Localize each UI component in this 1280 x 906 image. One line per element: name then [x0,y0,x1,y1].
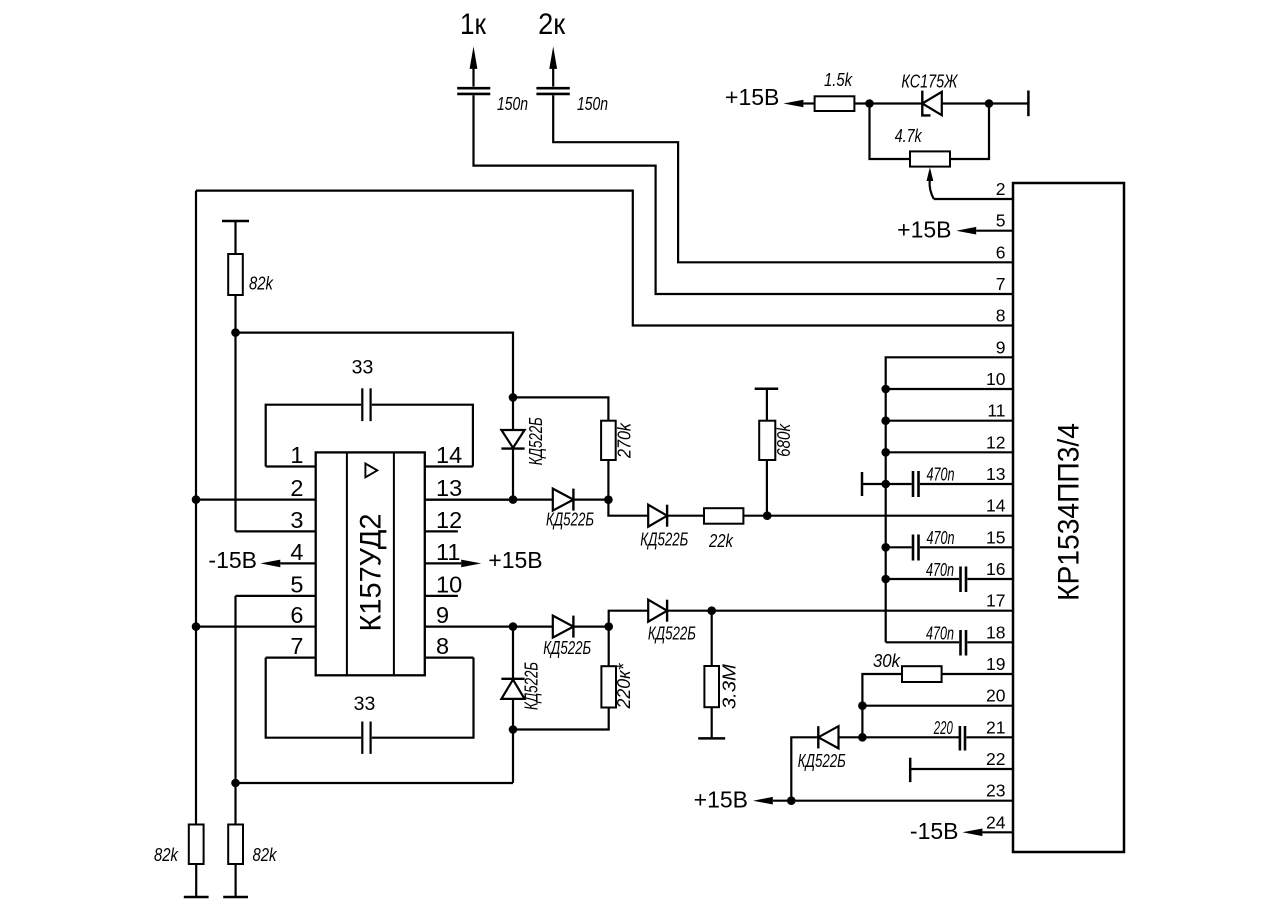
wire U1 pin6 [196,625,316,627]
arrowhead pin24 [962,829,982,837]
svg-text:+15В: +15В [897,217,951,243]
junction dot opamp pin13 node [509,495,518,504]
diode КД522Б D4 (points right) [513,625,609,627]
junction dot pin21 [858,733,867,742]
capacitor 33 (top) plates [361,388,363,421]
feedback loop bottom with cap [266,658,361,738]
svg-text:КД522Б: КД522Б [543,638,591,658]
op-amp U2 КР1534ПП3/4 box [1013,183,1124,852]
svg-text:КД522Б: КД522Б [546,509,594,529]
feedback loop top with cap [266,405,361,467]
wire pin18 left [886,641,959,643]
arrow up to 2к [549,46,557,69]
resistor 3.3М [704,666,719,707]
op-amp U1 triangle symbol [365,464,377,478]
resistor 82k (bottom right) [228,825,243,865]
svg-text:1.5k: 1.5k [824,70,853,90]
wire U1 pin11 [425,562,461,564]
junction dot A [865,99,874,108]
wire R1.5k to terminal [854,102,1028,104]
wire U1 pin8 [425,656,474,658]
svg-text:11: 11 [436,539,460,565]
wire pin15 left [886,546,912,548]
svg-text:270k: 270k [614,422,634,459]
arrowhead pin5 [956,227,976,235]
wire pin19 left + drop [862,674,902,737]
potentiometer 4.7k body [910,151,950,166]
diode КД522Б D5 (points right) [648,610,712,612]
svg-text:КД522Б: КД522Б [521,662,541,710]
wire C1 to pin7 net [474,95,1014,294]
junction dot pin17 node [707,606,716,615]
svg-text:30k: 30k [873,651,901,671]
zener diode КС175Ж [922,92,942,115]
potentiometer wiper arrow [930,180,934,199]
svg-text:2: 2 [996,179,1006,199]
wire U1 pin14 [425,465,473,467]
svg-text:7: 7 [290,633,303,659]
wire pin12 [886,451,1013,453]
junction dot pin14/680k [763,511,772,520]
wire pin10 [886,388,1013,390]
svg-text:КД522Б: КД522Б [526,417,546,465]
junction dot U1 pin6 [192,622,201,631]
terminal bar pin22 [909,758,912,782]
wire pin14 from 22k [743,515,1013,517]
capacitor 470n (pin15) plates [912,535,915,561]
wire pin9 and bus [886,357,1013,642]
wire pin22 [910,768,1013,770]
svg-text:14: 14 [436,442,462,468]
svg-text:4.7k: 4.7k [895,126,923,146]
capacitor C1 150n plates [457,87,490,90]
resistor 82k (top) [228,254,243,295]
wire pin16 right [967,578,1013,580]
svg-text:-15В: -15В [910,818,959,844]
svg-text:3.3М: 3.3М [720,664,740,709]
wire pin13 right [920,483,1013,485]
wire 3.3M to ground [711,707,713,738]
svg-text:33: 33 [354,693,376,715]
svg-text:14: 14 [986,496,1006,516]
capacitor 220 (pin21) plates [959,726,962,751]
terminal bar pin13 [861,472,864,496]
svg-text:5: 5 [290,571,303,597]
wire to 270k top [513,397,608,420]
svg-text:КД522Б: КД522Б [648,624,696,644]
svg-text:10: 10 [986,369,1006,389]
svg-text:6: 6 [996,242,1006,262]
svg-text:22k: 22k [708,531,734,551]
wire pin17 from 3.3M [712,610,1013,612]
wire left net to pin8 [196,191,1013,326]
junction dot pin11 [881,416,890,425]
svg-text:КД522Б: КД522Б [640,530,688,550]
svg-text:22: 22 [986,749,1005,769]
wire pin19 right [942,673,1013,675]
svg-text:+15В: +15В [725,84,779,110]
svg-text:82k: 82k [249,273,274,293]
junction dot D1 top [509,393,518,402]
junction dot pin10 [881,385,890,394]
junction dot pin12 [881,448,890,457]
wire arrow to R1.5k [803,102,814,104]
wire 680k top [766,389,768,421]
resistor 22k [704,508,743,524]
svg-text:-15В: -15В [208,547,257,573]
capacitor C2 150n plates [536,87,569,90]
wire 220k bottom [513,708,609,730]
wire pin5 [976,230,1013,232]
svg-text:18: 18 [986,622,1005,642]
junction dot pin16 [881,575,890,584]
diode КД522Б D3 (points right) [648,515,704,517]
junction dot U1 pin9 node [509,622,518,631]
wire jog to pin14 row [608,500,648,516]
wire pot left branch [870,104,911,160]
wire diode cathode to pin23 node [791,737,818,800]
wire pin21 right [966,736,1013,738]
wire 220k top [608,627,610,667]
terminal bar 680k top [755,388,779,391]
junction dot D6 anode [509,725,518,734]
svg-text:5: 5 [996,211,1006,231]
junction dot pin20 [858,701,867,710]
capacitor 470n (pin18) plates [959,630,962,656]
wire pin13 left [862,483,912,485]
arrow up to 1к [470,46,478,69]
junction dot U1 pin2 [192,495,201,504]
wire U1 pin9 [425,625,513,627]
wire 270k bottom [607,460,609,500]
diode КД522Б (pin21, points left) [839,736,960,738]
resistor 680k [759,421,775,460]
junction dot pin15 [881,543,890,552]
svg-text:470n: 470n [927,465,955,485]
svg-text:КС175Ж: КС175Ж [901,72,958,92]
svg-text:15: 15 [986,527,1005,547]
op-amp U1 inner left line [346,452,348,675]
svg-text:КД522Б: КД522Б [798,751,846,771]
svg-text:33: 33 [352,357,374,379]
svg-text:17: 17 [986,591,1005,611]
svg-text:7: 7 [996,274,1006,294]
svg-text:470n: 470n [926,560,954,580]
arrowhead +15В left [783,100,803,108]
arrowhead U1 pin11 [461,560,481,568]
svg-text:470n: 470n [927,528,955,548]
arrowhead U1 pin4 [260,560,280,568]
wire pin20 [862,705,1013,707]
wire pin18 right [967,641,1013,643]
wire U1 pin1 [266,465,316,467]
wire U1 pin2 [196,499,316,501]
svg-text:220: 220 [933,718,953,738]
capacitor 470n (pin13) plates [912,471,915,497]
diode КД522Б D2 (points right) [426,499,608,501]
svg-text:470n: 470n [926,624,954,644]
junction dot 82k/feedback [231,328,240,337]
svg-text:+15В: +15В [488,547,542,573]
wire U1 pin5 [236,595,316,597]
wire jog up to pin17 row [609,611,649,627]
svg-text:2к: 2к [538,8,566,41]
capacitor 470n (pin16) plates [959,567,962,593]
wire 680k bottom [766,460,768,516]
svg-text:16: 16 [986,559,1005,579]
resistor 82k (bottom left) [189,825,204,865]
svg-text:1: 1 [290,442,303,468]
junction dot 220k top [604,622,613,631]
junction dot pin23 [787,796,796,805]
svg-text:19: 19 [986,654,1005,674]
wire U1 pin13 [425,499,513,501]
wire 82k bl to ground [195,864,197,897]
svg-text:8: 8 [436,633,449,659]
svg-text:21: 21 [986,717,1005,737]
diode КД522Б D1 (vertical, points down) [512,397,514,499]
svg-text:150n: 150n [497,94,528,114]
svg-text:8: 8 [996,306,1006,326]
wire wiper to IC pin2 [934,198,1013,200]
wire 82k node to diode node [236,333,514,398]
wire U1 pin7 [266,656,316,658]
wire C2 to pin6 net [553,95,1013,262]
wire pin15 right [920,546,1013,548]
svg-text:К157УД2: К157УД2 [354,514,387,632]
junction dot 270k bottom [604,495,613,504]
terminal bar right of zener [1027,91,1030,117]
wire bar to R82k [234,221,236,254]
svg-text:9: 9 [436,602,449,628]
op-amp U1 К157УД2 box [316,452,425,675]
svg-text:6: 6 [290,602,303,628]
wire 82k br to ground [235,864,237,897]
junction dot pin13 [881,480,890,489]
svg-text:4: 4 [290,539,303,565]
terminal bar 82k top [222,220,249,223]
wire U1 pin12 stub [425,530,458,532]
wire pot right branch [950,104,989,160]
svg-text:82k: 82k [253,845,278,865]
ground (3.3M) [698,737,725,740]
svg-text:12: 12 [986,432,1005,452]
wire 3.3M top [711,611,713,666]
svg-text:2: 2 [290,475,303,501]
wire bottom return [236,782,514,784]
ground (82k bottom right) [223,896,248,899]
resistor 270k [601,421,616,460]
wire U1 pin10 stub [425,595,458,597]
resistor 1.5k [815,96,855,111]
wire pin23 [773,800,1013,802]
svg-text:13: 13 [436,475,462,501]
svg-text:3: 3 [290,507,303,533]
svg-text:150n: 150n [577,94,608,114]
svg-text:82k: 82k [154,845,179,865]
arrowhead pin23 [753,797,773,805]
svg-text:23: 23 [986,781,1005,801]
svg-text:1к: 1к [460,8,487,41]
resistor 220к* [601,666,616,707]
wire pin11 [886,420,1013,422]
capacitor 33 (bottom) plates [361,722,363,754]
svg-text:12: 12 [436,507,462,533]
wire U1 pin3 [236,530,316,532]
wire pin24 [982,831,1013,833]
svg-text:11: 11 [987,401,1005,421]
resistor 30k [902,666,942,682]
svg-text:9: 9 [996,337,1006,357]
svg-text:10: 10 [436,571,462,597]
svg-text:680k: 680k [774,423,794,457]
svg-text:+15В: +15В [694,787,748,813]
svg-text:220к*: 220к* [614,663,634,710]
svg-text:24: 24 [986,812,1006,832]
diode КД522Б D6 (vertical, points up) [512,627,514,783]
wire left rail [195,191,197,825]
wire mid rail lower [234,596,236,825]
op-amp U1 inner right line [393,452,395,675]
svg-text:20: 20 [986,686,1006,706]
ground (82k bottom left) [184,896,209,899]
wire pin16 left [886,578,959,580]
svg-text:КР1534ПП3/4: КР1534ПП3/4 [1053,423,1086,601]
wire mid rail upper [234,295,236,531]
wire U1 pin4 [280,562,315,564]
junction dot bottom rail [231,779,240,788]
svg-text:13: 13 [986,464,1005,484]
junction dot B [985,99,994,108]
